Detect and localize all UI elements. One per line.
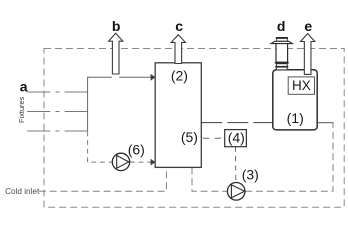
arrow e bbox=[301, 34, 315, 75]
svg-text:(2): (2) bbox=[171, 67, 188, 83]
controller box (4) bbox=[225, 130, 247, 147]
svg-text:(3): (3) bbox=[242, 166, 259, 182]
fixtures manifold vertical wire bbox=[88, 77, 112, 131]
dashed wire pump 6 to tank 2 bbox=[130, 161, 151, 163]
flue d cap bbox=[276, 38, 287, 41]
svg-text:(1): (1) bbox=[287, 110, 304, 126]
wire into tank 1 right bbox=[318, 122, 334, 124]
svg-text:(5): (5) bbox=[181, 129, 198, 145]
system boundary dashed border bbox=[44, 49, 344, 208]
pump (6) bbox=[112, 153, 129, 170]
HX box bbox=[288, 77, 314, 94]
fixture line a3 bbox=[27, 130, 87, 132]
fixture line a1 bbox=[27, 91, 87, 93]
svg-text:c: c bbox=[175, 18, 183, 34]
svg-text:(4): (4) bbox=[228, 130, 245, 146]
svg-text:Fixtures: Fixtures bbox=[17, 96, 26, 123]
fixture line a2 bbox=[27, 111, 87, 113]
svg-text:e: e bbox=[304, 18, 312, 34]
arrow c bbox=[171, 35, 185, 64]
arrowhead into tank 2 upper left bbox=[151, 74, 156, 81]
tank 2 outlet dashed wire to pump 3 bbox=[192, 168, 227, 192]
flue d cap top bar bbox=[276, 37, 288, 39]
dashed wire down from fixtures manifold to pump 6 bbox=[88, 132, 112, 163]
arrowhead into tank 2 lower left bbox=[151, 159, 156, 166]
svg-text:HX: HX bbox=[292, 78, 311, 93]
wire to tank 2 upper left bbox=[119, 76, 151, 78]
svg-text:d: d bbox=[277, 18, 286, 34]
flue d brim bbox=[271, 41, 292, 43]
flue d collar bar 1 bbox=[275, 62, 289, 64]
wire pump 3 to tank 1 right side bbox=[245, 123, 333, 192]
tank (2) bbox=[155, 63, 201, 168]
long-dash wire tank 2 to tank 1 bbox=[201, 122, 272, 124]
arrow b bbox=[109, 33, 123, 74]
svg-text:b: b bbox=[112, 18, 121, 34]
svg-text:Cold inlet: Cold inlet bbox=[5, 187, 40, 196]
svg-text:a: a bbox=[20, 78, 28, 94]
tank (1) bbox=[273, 70, 317, 130]
dashed wire node 5 to controller 4 bbox=[203, 137, 225, 139]
cold inlet dashed wire bbox=[39, 168, 167, 192]
flue d neck bbox=[276, 64, 287, 70]
pump (3) bbox=[227, 183, 245, 201]
svg-text:(6): (6) bbox=[128, 141, 145, 157]
flue d body bbox=[276, 43, 288, 62]
dashed wire controller 4 to pump 3 bbox=[235, 147, 237, 183]
flue d collar bar 2 bbox=[275, 66, 288, 68]
